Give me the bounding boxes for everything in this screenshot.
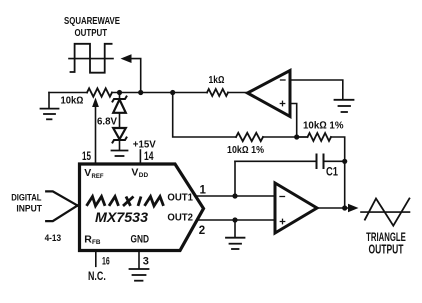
ground (top right)	[335, 100, 354, 112]
label VDD pin name	[131, 166, 148, 179]
wire U1 noninverting input down	[290, 104, 297, 138]
resistor 10k 1% (right)	[297, 133, 331, 141]
MAXIM logo	[87, 197, 164, 206]
wire OUT2 to ground	[234, 220, 236, 237]
wire OUT1 to integrator	[195, 195, 275, 197]
node squarewave tap	[138, 90, 143, 95]
ground (OUT2)	[226, 238, 245, 249]
svg-text:OUTPUT: OUTPUT	[369, 243, 404, 257]
svg-text:GND: GND	[131, 234, 150, 246]
squarewave symbol	[69, 44, 113, 73]
arrow to squarewave output	[121, 54, 141, 92]
wire pin 3 to ground	[138, 251, 140, 269]
label SQUAREWAVE OUTPUT	[64, 15, 120, 39]
label TRIANGLE OUTPUT	[366, 230, 406, 257]
wire pin 16 stub	[95, 251, 97, 267]
node resistor junction	[294, 134, 299, 139]
label VREF pin name	[84, 167, 103, 180]
ground (left of pot)	[41, 93, 59, 120]
node output junction	[342, 205, 347, 210]
svg-text:FB: FB	[92, 239, 101, 246]
node OUT2	[232, 217, 237, 222]
ground (DAC GND)	[130, 269, 149, 281]
svg-text:15: 15	[82, 149, 91, 163]
node zener junction	[117, 90, 122, 95]
wire	[263, 136, 297, 138]
wire resistor to op-amp output	[228, 92, 248, 94]
wire resistor to feedback rail	[331, 137, 345, 208]
svg-text:N.C.: N.C.	[88, 271, 106, 283]
wire feedback down to resistor line	[173, 93, 236, 138]
wire pin 14 VDD	[139, 150, 141, 164]
potentiometer R 10k	[87, 88, 112, 96]
svg-text:14: 14	[144, 149, 154, 163]
zener diode D2 (bottom)	[113, 128, 127, 150]
svg-text:1: 1	[200, 185, 207, 197]
zener diode D1 (top, 6.8V pair)	[113, 93, 127, 129]
ground (below zeners)	[112, 151, 128, 157]
potentiometer wiper arrow to pin 15	[92, 98, 99, 164]
svg-text:V: V	[84, 167, 91, 179]
svg-text:MX7533: MX7533	[95, 209, 148, 225]
capacitor C1	[235, 155, 345, 169]
svg-text:V: V	[131, 166, 138, 178]
op-amp U3 (integrator, points right)	[275, 183, 317, 233]
svg-text:OUTPUT: OUTPUT	[75, 27, 108, 39]
svg-text:INPUT: INPUT	[16, 203, 42, 213]
label RFB pin name	[84, 233, 101, 246]
node OUT1	[232, 193, 237, 198]
svg-text:OUT2: OUT2	[167, 213, 193, 224]
svg-text:2: 2	[199, 225, 205, 237]
svg-text:SQUAREWAVE: SQUAREWAVE	[64, 15, 120, 27]
svg-text:OUT1: OUT1	[167, 193, 193, 204]
resistor 1k	[207, 89, 228, 96]
svg-text:4-13: 4-13	[45, 233, 62, 244]
arrow triangle output	[348, 204, 359, 212]
wire main node	[49, 92, 87, 94]
DAC U2 MX7533 body	[80, 164, 204, 251]
svg-text:REF: REF	[92, 173, 104, 180]
svg-text:10kΩ 1%: 10kΩ 1%	[303, 120, 344, 132]
op-amp U1 (comparator, points left)	[248, 71, 291, 117]
svg-text:6.8V: 6.8V	[97, 117, 117, 128]
resistor 10k 1% (left)	[236, 133, 263, 141]
svg-text:10kΩ: 10kΩ	[61, 96, 84, 107]
node C1 to rail	[342, 159, 347, 164]
svg-text:C1: C1	[326, 164, 338, 178]
svg-text:10kΩ 1%: 10kΩ 1%	[227, 145, 264, 156]
svg-text:3: 3	[143, 256, 149, 268]
wire U3 output	[317, 207, 349, 209]
svg-text:R: R	[84, 233, 92, 245]
digital input bus arrow	[46, 191, 77, 221]
svg-text:DIGITAL: DIGITAL	[11, 192, 42, 202]
wire U1 inverting input to ground	[290, 80, 343, 99]
svg-text:DD: DD	[139, 172, 149, 179]
triangle wave symbol	[361, 199, 410, 226]
wire OUT2 to integrator	[197, 219, 275, 221]
node feedback tap	[170, 90, 175, 95]
wire main node continues	[112, 92, 207, 94]
wire C1 left down to OUT1	[234, 161, 236, 196]
svg-text:16: 16	[102, 256, 110, 268]
label DIGITAL INPUT	[11, 192, 42, 213]
svg-text:1kΩ: 1kΩ	[209, 75, 225, 86]
